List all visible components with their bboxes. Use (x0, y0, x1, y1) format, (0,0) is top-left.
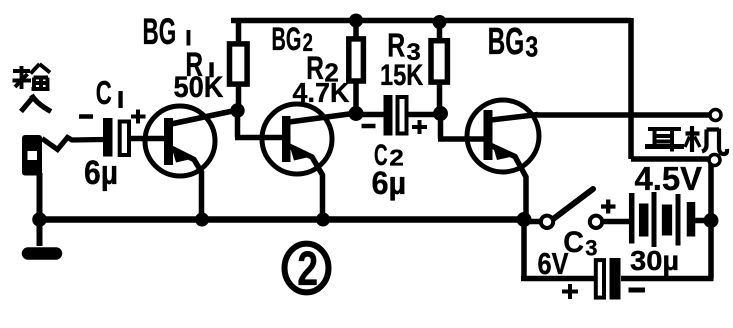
svg-text:50K: 50K (174, 71, 224, 105)
svg-text:C: C (96, 74, 112, 110)
svg-text:BG: BG (488, 19, 525, 62)
svg-text:6µ: 6µ (84, 153, 118, 191)
svg-text:3: 3 (585, 236, 597, 261)
svg-text:BG: BG (143, 11, 177, 52)
svg-text:15K: 15K (380, 58, 424, 91)
svg-text:30µ: 30µ (630, 246, 679, 277)
svg-text:2: 2 (297, 243, 318, 297)
svg-text:3: 3 (525, 30, 538, 63)
svg-text:4.5V: 4.5V (635, 160, 703, 197)
svg-text:BG: BG (272, 21, 302, 57)
svg-text:6µ: 6µ (372, 165, 407, 201)
svg-text:4.7K: 4.7K (293, 77, 350, 109)
svg-text:6V: 6V (538, 245, 569, 280)
